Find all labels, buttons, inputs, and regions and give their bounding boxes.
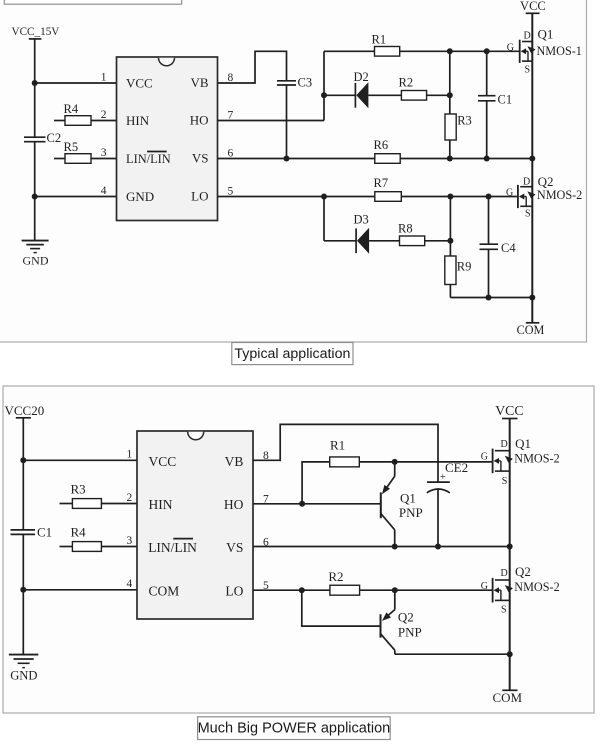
node junction VS/half-bridge fig2 <box>507 544 513 550</box>
wire R2 to R3 node <box>427 94 450 96</box>
svg-text:R8: R8 <box>398 222 413 236</box>
svg-text:LO: LO <box>191 189 208 204</box>
svg-text:3: 3 <box>101 147 107 159</box>
svg-text:G: G <box>507 42 514 53</box>
svg-text:COM: COM <box>149 583 180 598</box>
IC U2 pin-1 notch <box>188 432 204 440</box>
svg-text:PNP: PNP <box>399 505 423 520</box>
svg-text:R1: R1 <box>372 32 387 46</box>
node junction riser/D2 branch <box>321 92 327 98</box>
net VCC terminal figure 2 <box>495 403 523 419</box>
wire CE2 bottom to VS line <box>437 489 439 546</box>
node junction LO/Q2 base branch <box>299 587 305 593</box>
node junction LO line / C4 branch <box>486 194 492 200</box>
ground GND symbol figure 2 <box>9 655 38 683</box>
node junction rail/pin1 fig2 <box>20 457 26 463</box>
wire pin7 HO to Q1 base <box>253 503 380 505</box>
node junction C4/COM rail <box>486 295 492 301</box>
node junction R2 / Q2 PNP emitter <box>392 587 398 593</box>
svg-text:G: G <box>506 188 513 199</box>
figure 1 border frame (Typical application) <box>0 0 587 342</box>
wire pin8 VB loop to CE2 <box>253 424 438 481</box>
svg-text:Much Big POWER application: Much Big POWER application <box>198 720 391 736</box>
svg-text:2: 2 <box>127 492 133 504</box>
wire pin1 VCC fig2 <box>23 459 137 461</box>
svg-text:VCC: VCC <box>126 76 153 91</box>
wire half-bridge vertical fig2 <box>509 419 511 691</box>
resistor R4 fig2 <box>60 525 138 552</box>
svg-text:R9: R9 <box>457 259 472 273</box>
resistor R9 <box>445 256 472 285</box>
svg-text:R4: R4 <box>71 525 87 540</box>
resistor R3 <box>445 114 472 141</box>
svg-text:Q1: Q1 <box>538 27 554 42</box>
caption box Much Big POWER application <box>198 717 391 740</box>
node junction R8/R9 <box>447 238 453 244</box>
wire R1 to Q1 NMOS gate <box>359 461 492 463</box>
node junction R2/R3 <box>447 92 453 98</box>
svg-text:G: G <box>481 452 488 463</box>
svg-text:NMOS-2: NMOS-2 <box>514 580 559 594</box>
figure 2 border frame (Much Big POWER application) <box>3 386 594 713</box>
wire Q2 collector to COM node <box>395 653 510 655</box>
wire R1 riser <box>302 462 330 504</box>
top edge of previous caption box (cut off) <box>4 0 181 4</box>
svg-text:VCC: VCC <box>149 454 177 469</box>
wire C1 top <box>486 51 488 95</box>
svg-text:S: S <box>525 209 531 220</box>
svg-text:HIN: HIN <box>126 113 150 128</box>
wire pin6 VS fig2 <box>253 546 510 548</box>
wire pin6 VS left segment <box>218 158 375 160</box>
transistor Q1 NMOS-2 symbol fig2 <box>493 449 513 474</box>
svg-text:D: D <box>523 177 530 188</box>
capacitor C3 <box>277 76 312 90</box>
net COM terminal figure 1 <box>517 323 545 337</box>
node junction rail/pin4 fig2 <box>20 587 26 593</box>
wire pin1 VCC <box>35 82 117 84</box>
wire R9 bottom to COM rail <box>449 285 451 298</box>
transistor Q2 NMOS-2 symbol <box>518 185 536 208</box>
wire R1 to Q1 gate <box>400 50 520 52</box>
svg-text:R7: R7 <box>374 176 389 190</box>
resistor R2 fig2 <box>328 569 359 595</box>
resistor R2 <box>399 76 427 101</box>
wire R2 to Q2 NMOS gate <box>360 589 493 591</box>
IC U1 pin name LIN/LIN with overline <box>126 152 171 166</box>
svg-text:C1: C1 <box>498 93 513 107</box>
node junction HO/R1 riser <box>299 501 305 507</box>
svg-text:VCC_15V: VCC_15V <box>12 26 60 38</box>
svg-text:Q1: Q1 <box>400 491 416 506</box>
wire pin4 GND <box>35 196 117 198</box>
svg-text:VB: VB <box>225 454 244 469</box>
svg-text:GND: GND <box>10 669 37 683</box>
svg-text:D: D <box>501 439 508 450</box>
svg-text:S: S <box>502 476 508 487</box>
svg-text:NMOS-2: NMOS-2 <box>537 188 582 202</box>
wire D2 to R2 <box>368 94 401 96</box>
wire D2 branch <box>324 94 355 96</box>
wire R9 top <box>449 197 451 257</box>
svg-text:R2: R2 <box>399 76 414 90</box>
node junction R3/VS <box>447 156 453 162</box>
wire pin4 COM fig2 <box>23 589 137 591</box>
svg-text:2: 2 <box>101 109 107 121</box>
svg-text:LIN/LIN: LIN/LIN <box>126 152 171 166</box>
svg-text:HO: HO <box>190 113 209 128</box>
wire D3 branch riser <box>323 197 325 241</box>
svg-text:VCC: VCC <box>520 0 546 13</box>
svg-text:Q2: Q2 <box>538 174 554 189</box>
svg-text:8: 8 <box>228 72 234 84</box>
wire VS right segment <box>400 158 532 160</box>
svg-text:C3: C3 <box>298 76 313 90</box>
svg-text:D3: D3 <box>354 213 369 227</box>
diode D2 <box>354 70 369 108</box>
svg-text:GND: GND <box>126 189 154 204</box>
net VCC20 supply terminal <box>5 403 45 418</box>
svg-text:R6: R6 <box>374 138 389 152</box>
svg-text:LIN/LIN: LIN/LIN <box>148 540 197 555</box>
node junction R1 / Q1 PNP emitter <box>392 459 398 465</box>
svg-text:G: G <box>481 581 488 592</box>
svg-text:1: 1 <box>101 72 107 84</box>
node junction LO/D3 branch <box>321 194 327 200</box>
node junction COM rail / Q2 source <box>529 295 535 301</box>
wire C4 top <box>488 197 490 245</box>
node junction LO line / R9 branch <box>447 194 453 200</box>
svg-text:4: 4 <box>101 185 107 197</box>
svg-text:Q2: Q2 <box>515 564 531 579</box>
svg-text:Q2: Q2 <box>398 610 414 625</box>
capacitor C2 <box>24 131 61 145</box>
svg-text:R1: R1 <box>330 438 345 453</box>
svg-text:R3: R3 <box>71 482 86 497</box>
node junction rail/pin4 <box>32 194 38 200</box>
diode D3 <box>354 213 370 254</box>
net VCC terminal figure 1 <box>520 0 546 13</box>
capacitor C4 <box>480 241 517 255</box>
wire D3 branch <box>324 240 356 242</box>
wire pin8 VB to C3 <box>218 51 287 83</box>
svg-text:GND: GND <box>23 253 49 267</box>
svg-text:1: 1 <box>127 449 133 461</box>
svg-text:C2: C2 <box>47 131 62 145</box>
node junction R1 line / C1 branch <box>484 48 490 54</box>
wire C3 bottom to VS line <box>286 85 288 159</box>
wire half-bridge vertical <box>531 13 533 323</box>
svg-text:S: S <box>501 605 507 616</box>
node junction C3/VS <box>284 156 290 162</box>
resistor R7 <box>374 176 402 201</box>
svg-text:NMOS-2: NMOS-2 <box>514 452 559 466</box>
node junction VS / half-bridge midpoint <box>529 156 535 162</box>
svg-text:COM: COM <box>517 323 545 337</box>
svg-text:R2: R2 <box>328 569 343 584</box>
wire R3 top <box>449 51 451 114</box>
node junction rail/pin1 <box>32 80 38 86</box>
svg-text:3: 3 <box>127 535 133 547</box>
transistor Q2 PNP symbol <box>381 590 395 654</box>
capacitor C1 <box>478 93 512 107</box>
resistor R3 fig2 <box>60 482 138 509</box>
svg-text:C1: C1 <box>37 525 52 540</box>
ground GND symbol figure 1 <box>22 241 49 268</box>
wire C4 bottom <box>488 249 490 297</box>
gate driver IC U2 body <box>137 431 253 619</box>
node junction CE2/VS <box>435 544 441 550</box>
wire : left VCC20 rail <box>22 418 24 655</box>
IC U2 pin name LIN/LIN with overline <box>148 539 197 555</box>
gate driver IC U1 body <box>117 57 218 221</box>
net COM terminal figure 2 <box>492 690 522 705</box>
svg-text:D: D <box>524 31 531 42</box>
svg-text:R4: R4 <box>64 102 79 116</box>
svg-text:LO: LO <box>225 583 243 598</box>
wire COM rail <box>450 297 532 299</box>
svg-text:4: 4 <box>127 578 133 590</box>
wire pin7 HO <box>218 120 325 122</box>
svg-text:R3: R3 <box>457 114 472 128</box>
svg-text:VS: VS <box>226 540 243 555</box>
transistor Q1 PNP symbol <box>381 462 395 547</box>
wire pin5 LO left segment <box>218 196 375 198</box>
svg-text:+: + <box>440 472 446 483</box>
wire gate line Q1 <box>324 50 375 52</box>
caption box Typical application <box>232 343 353 365</box>
svg-text:PNP: PNP <box>398 625 422 640</box>
resistor R1 <box>372 32 400 56</box>
svg-text:Q1: Q1 <box>515 436 531 451</box>
resistor R4 <box>54 102 117 125</box>
wire HO riser to gate line <box>323 51 325 120</box>
wire R8 to R9 node <box>425 240 451 242</box>
svg-text:S: S <box>525 65 531 76</box>
capacitor CE2 electrolytic <box>427 460 468 493</box>
resistor R1 fig2 <box>330 438 360 467</box>
svg-text:VB: VB <box>190 75 208 90</box>
wire pin5 LO to R2 <box>253 589 330 591</box>
svg-text:HO: HO <box>224 497 244 512</box>
resistor R6 <box>374 138 401 163</box>
svg-text:VCC: VCC <box>495 403 523 418</box>
resistor R8 <box>398 222 425 246</box>
svg-text:COM: COM <box>492 690 522 705</box>
transistor Q2 NMOS-2 symbol fig2 <box>493 578 513 603</box>
svg-text:Typical application: Typical application <box>234 346 350 362</box>
net VCC_15V supply terminal <box>12 26 60 39</box>
transistor Q1 NMOS-1 symbol <box>520 40 536 63</box>
wire Q2 base branch <box>302 590 381 626</box>
svg-text:D2: D2 <box>354 70 369 84</box>
svg-text:R5: R5 <box>64 140 79 154</box>
wire D3 to R8 <box>369 240 399 242</box>
svg-text:HIN: HIN <box>149 497 173 512</box>
resistor R5 <box>54 140 117 164</box>
wire R3 bottom to VS <box>449 140 451 159</box>
node junction R1 line / R3 branch <box>447 48 453 54</box>
node junction Q2 collector/COM <box>507 651 513 657</box>
svg-text:VS: VS <box>192 150 209 165</box>
svg-text:D: D <box>501 568 508 579</box>
svg-text:C4: C4 <box>501 241 516 255</box>
wire : left VCC rail <box>34 39 36 241</box>
svg-text:NMOS-1: NMOS-1 <box>537 44 582 58</box>
svg-text:VCC20: VCC20 <box>5 403 45 418</box>
wire R7 to Q2 gate <box>401 196 518 198</box>
wire C1 bottom to VS <box>486 101 488 159</box>
capacitor C1 fig2 <box>11 525 53 540</box>
node junction Q1 collector/VS <box>392 544 398 550</box>
node junction C1/VS <box>484 156 490 162</box>
IC U1 pin-1 notch <box>159 58 175 66</box>
